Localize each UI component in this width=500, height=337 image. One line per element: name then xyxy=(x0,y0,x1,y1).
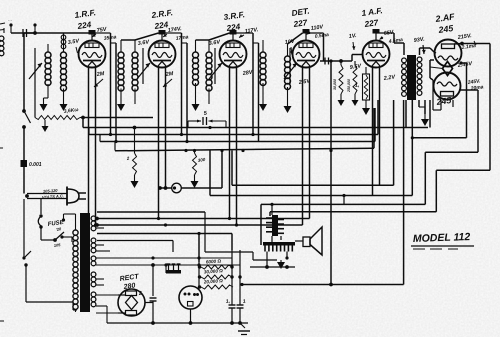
wire v7 legs xyxy=(433,80,441,110)
wire lamp xyxy=(158,186,172,190)
bus B1 xyxy=(83,118,428,130)
cord xyxy=(25,194,67,199)
capacitor C-det xyxy=(320,58,341,65)
wire antenna horizontal xyxy=(11,32,64,34)
wire feed S1b xyxy=(111,43,117,142)
label R-b2 xyxy=(197,157,206,163)
wire 245 junction left xyxy=(430,60,443,80)
wire fuse drop xyxy=(40,198,42,214)
label 28V xyxy=(241,69,254,77)
label 4.75V xyxy=(92,26,117,41)
label 3.5V V1 xyxy=(67,38,80,53)
coil L2b xyxy=(132,40,138,104)
svg-text:⋯: ⋯ xyxy=(8,18,12,23)
wire fc bottom xyxy=(250,246,295,269)
bottom bus xyxy=(107,321,248,325)
grid cap V4 xyxy=(303,29,310,41)
tube V8 RECT 280 xyxy=(118,289,145,316)
tap lead6 xyxy=(96,312,118,314)
transformer T1 sec5 xyxy=(91,292,96,307)
rect diamond xyxy=(126,296,138,310)
capacitor C-o1 xyxy=(225,298,235,323)
label 117V xyxy=(239,27,259,37)
label 2.5V xyxy=(297,78,311,86)
tube V7 245 lower xyxy=(434,73,461,100)
wire 2af grid xyxy=(434,52,436,53)
resistor R-det1 xyxy=(333,61,343,100)
wire det plate xyxy=(306,33,324,61)
svg-text:250,000: 250,000 xyxy=(347,79,351,93)
varcap VC3 xyxy=(209,48,222,84)
grid cap V5 xyxy=(373,29,380,41)
resistor R-b1 xyxy=(133,128,137,182)
label 9.5V xyxy=(349,63,362,71)
tap lead5 xyxy=(96,306,107,323)
wire speaker xyxy=(295,240,303,242)
legs V3 xyxy=(230,66,237,225)
label 227 V5 xyxy=(363,18,379,29)
resistor R-det2 xyxy=(347,61,357,100)
wire v7 leg2 xyxy=(453,100,467,107)
filament diamond xyxy=(443,62,453,76)
coil L2a xyxy=(118,40,124,98)
label 215V xyxy=(456,33,476,45)
coil L1b xyxy=(61,33,67,98)
label 2.2V xyxy=(382,74,396,82)
wire rstack right xyxy=(230,250,241,305)
svg-text:1,: 1, xyxy=(225,298,230,305)
edge marks xyxy=(0,23,5,321)
wire box 204 xyxy=(0,0,1,1)
staple3 xyxy=(270,170,490,216)
label 110V xyxy=(307,24,330,40)
transformer T1 sec4 xyxy=(91,272,96,287)
label 93V xyxy=(413,36,425,54)
label 1V xyxy=(348,33,357,50)
wire switch line xyxy=(22,199,77,302)
capacitor C-r2 xyxy=(137,265,156,323)
label R-b1 xyxy=(125,156,130,162)
label MODEL 112 xyxy=(411,231,474,249)
wire V2 top xyxy=(121,33,159,40)
wire feed S3 xyxy=(237,33,254,135)
ground R5 xyxy=(362,108,370,115)
transformer T2 secondary xyxy=(417,57,422,95)
tap T4 xyxy=(96,212,205,285)
label 5 xyxy=(203,110,208,116)
antenna binding posts xyxy=(8,18,37,33)
varcap VC2 xyxy=(137,48,150,84)
label 2.RF xyxy=(150,8,173,20)
ground speaker r xyxy=(277,260,285,269)
transformer T1 primary xyxy=(73,230,78,309)
svg-text:2M: 2M xyxy=(95,71,105,78)
label 1 R5 xyxy=(354,82,360,89)
tap leads xyxy=(96,216,97,219)
node ant junction xyxy=(33,31,37,35)
resistor R-30000 xyxy=(198,275,232,279)
label RECT 280 xyxy=(119,273,140,291)
wire long 331 xyxy=(329,59,332,284)
wire v7 plate xyxy=(459,90,478,152)
label 10V xyxy=(284,38,296,55)
transformer T1 sec2 xyxy=(91,238,96,253)
switch SW1 xyxy=(22,109,30,160)
legs V2 xyxy=(159,66,166,219)
label 2.1ma xyxy=(460,43,476,51)
ground L2a xyxy=(117,98,125,111)
ground T2 xyxy=(419,107,429,126)
label 224 V1 xyxy=(76,20,92,31)
ground L4a xyxy=(259,98,267,111)
coil L4b xyxy=(285,44,291,100)
label 227 V4 xyxy=(292,18,308,29)
label 3.RF xyxy=(223,10,245,22)
wire left drop xyxy=(24,33,35,111)
wire T3 bottom xyxy=(272,236,281,243)
wire fuse to switch xyxy=(41,227,55,240)
label 3.6V V3 xyxy=(208,39,221,47)
speaker throat xyxy=(303,237,310,247)
coil L3b xyxy=(206,40,212,104)
ground L1a xyxy=(40,98,49,111)
varcap VC4 xyxy=(284,48,297,84)
ground R-det2 xyxy=(352,100,359,106)
wire T2 top right xyxy=(420,48,435,55)
svg-text:0.001: 0.001 xyxy=(29,162,42,168)
capacitor C-ant xyxy=(23,29,27,37)
bus B5 xyxy=(81,116,153,120)
plug xyxy=(67,187,86,206)
label 20000 xyxy=(203,278,224,284)
resistor R-6000 xyxy=(198,265,232,269)
wire T3 top xyxy=(270,194,345,215)
edge coil partial xyxy=(0,28,4,56)
transformer T3 left xyxy=(266,218,272,232)
switch SW2 xyxy=(53,218,65,248)
transformer T1 sec top xyxy=(91,216,96,231)
wire T2 top left xyxy=(376,33,404,55)
label 6000 xyxy=(206,258,222,264)
transformer T3 core xyxy=(272,215,278,236)
staple4 xyxy=(261,152,478,245)
label 2.45V xyxy=(456,61,473,69)
label 65V xyxy=(380,29,404,45)
label FUSE xyxy=(47,220,65,228)
label 245 V6 xyxy=(437,23,454,35)
tube V2 2.RF 224 xyxy=(149,41,176,68)
tap lead3 xyxy=(96,263,240,267)
transformer T2 primary xyxy=(402,58,407,96)
ground R-k1 xyxy=(42,120,49,132)
socket S1 xyxy=(179,286,202,309)
wire feed S2b xyxy=(182,43,188,142)
label 30000 xyxy=(204,268,224,274)
grid leak 2M V2 xyxy=(163,71,174,87)
label 0.001 xyxy=(29,162,42,168)
ground L4b xyxy=(284,100,292,113)
resistor R-b2 xyxy=(193,151,197,182)
legs V4 xyxy=(303,66,310,225)
label 1.RF xyxy=(74,8,96,20)
transformer T1 sec3 xyxy=(91,256,96,266)
wire primary bottom xyxy=(26,302,77,310)
wire primary top xyxy=(64,214,76,312)
coil L1a xyxy=(45,44,51,98)
wire socket left xyxy=(165,265,167,273)
label 245V 20ma xyxy=(466,78,484,92)
tube V6 2.AF 245 xyxy=(435,40,462,67)
label volts xyxy=(42,188,64,200)
rect plates xyxy=(126,291,137,315)
varcap VC1 xyxy=(29,48,42,118)
svg-text:1V.: 1V. xyxy=(348,33,357,40)
wire lamp right xyxy=(181,151,222,189)
cap block xyxy=(166,264,181,274)
resistor R-20000 xyxy=(198,285,233,289)
transformer T1 core xyxy=(80,213,90,312)
resistor R-k1 xyxy=(35,116,83,120)
label 245 V7 xyxy=(435,95,452,107)
bus B4 xyxy=(115,108,374,152)
wire bus left ends xyxy=(89,128,115,151)
wire feed S3b xyxy=(253,43,259,142)
wire feed S1 xyxy=(96,33,111,135)
ground R-det1 xyxy=(338,100,345,106)
wire V3 top xyxy=(196,33,230,40)
transformer T2 core xyxy=(407,55,416,100)
wire long 404 xyxy=(403,100,405,285)
tube V4 DET 227 xyxy=(293,41,320,68)
label DET xyxy=(291,7,310,18)
label 2.AF xyxy=(434,11,456,24)
grid cap V2 xyxy=(159,30,166,41)
ground R-b2 xyxy=(191,181,199,188)
tube V5 1.AF 227 xyxy=(363,41,390,68)
legs V5 xyxy=(373,66,380,196)
ground L1b xyxy=(60,98,68,111)
svg-text:MODEL 112: MODEL 112 xyxy=(413,231,471,245)
staple1 xyxy=(232,100,394,185)
staple2 xyxy=(210,100,412,196)
wire 245 filament right xyxy=(459,61,466,137)
grid leak 2M V1 xyxy=(94,71,105,87)
capacitor C-o2 xyxy=(237,299,247,323)
wire rstack top xyxy=(205,212,277,260)
svg-text:30,000: 30,000 xyxy=(333,79,337,90)
node det out xyxy=(339,59,343,63)
ground bottom xyxy=(238,323,250,335)
tap T1 xyxy=(87,217,310,221)
ground R-b1 xyxy=(131,181,139,188)
wire V4 top xyxy=(288,33,303,44)
label 3.6K xyxy=(63,107,78,115)
wire 2af plate xyxy=(454,42,490,171)
tap lead4 xyxy=(96,294,118,296)
wire socket bottom xyxy=(189,309,193,325)
label 224 V3 xyxy=(225,22,241,33)
wire taps to primary xyxy=(62,214,72,242)
tap lead2 xyxy=(96,251,232,260)
capacitor C5 xyxy=(188,117,226,128)
wire V1 top xyxy=(64,32,89,34)
wire socket top xyxy=(198,262,200,287)
wire rect right xyxy=(145,302,153,304)
speaker cone xyxy=(310,227,322,255)
label 3.6V V2 xyxy=(137,39,150,47)
wire det to af xyxy=(339,55,363,63)
bus B3b xyxy=(411,136,467,139)
coil L3a xyxy=(193,40,199,98)
transformer T3 right xyxy=(278,220,284,234)
fuse F1 xyxy=(38,214,42,228)
bus 285 xyxy=(240,283,403,287)
label 224 V2 xyxy=(153,20,169,31)
grid cap V1 xyxy=(89,30,96,41)
grid resistor R5 xyxy=(363,67,370,108)
legs V1 xyxy=(89,66,96,225)
dot r xyxy=(151,321,155,325)
label 174V xyxy=(163,26,189,42)
pilot lamp xyxy=(172,183,182,193)
wire rect left xyxy=(118,295,126,313)
ground L3a xyxy=(192,98,200,111)
capacitor 0.001 xyxy=(21,160,28,194)
bus B3 xyxy=(100,108,375,143)
coil L4a xyxy=(260,40,266,98)
field coil xyxy=(263,242,295,252)
tube V1 1.RF 224 xyxy=(79,41,106,68)
bus B2 xyxy=(89,100,378,136)
antenna coil La xyxy=(61,35,66,49)
tap T3 xyxy=(97,232,232,262)
wire fc legs xyxy=(265,252,289,269)
tap T2w xyxy=(94,223,303,227)
wire feed S2 xyxy=(166,33,182,135)
label 1.AF xyxy=(361,6,383,18)
wire T2 bottom legs xyxy=(406,100,430,128)
grid cap V3 xyxy=(230,30,237,41)
tube V3 3.RF 224 xyxy=(220,41,247,68)
